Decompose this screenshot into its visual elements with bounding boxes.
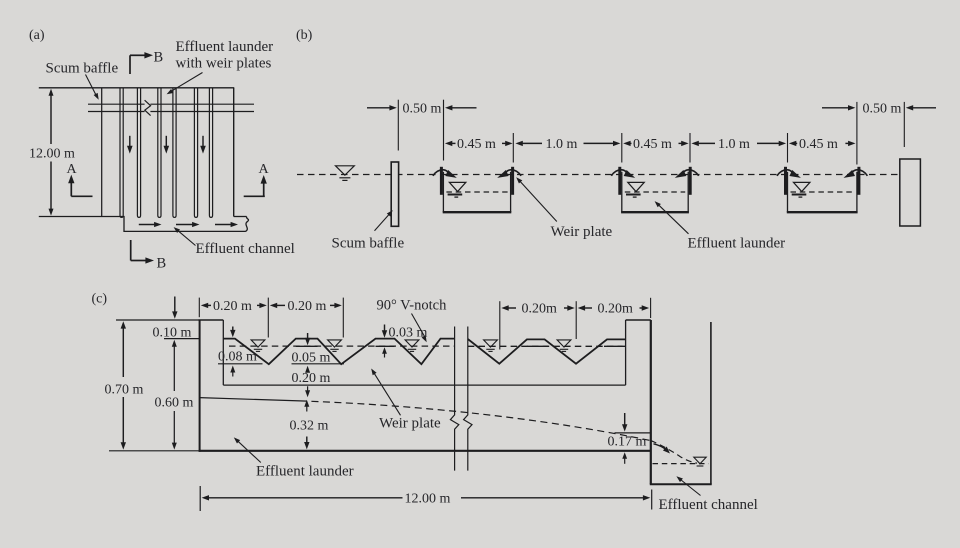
svg-text:0.45 m: 0.45 m [799,137,838,152]
svg-text:90° V-notch: 90° V-notch [377,298,448,314]
svg-text:Effluent channel: Effluent channel [659,497,758,513]
svg-text:(c): (c) [92,292,108,307]
svg-text:B: B [154,50,164,66]
svg-text:0.08 m: 0.08 m [218,350,257,365]
svg-text:12.00 m: 12.00 m [29,147,75,162]
svg-text:B: B [157,256,167,272]
svg-text:Effluent launder: Effluent launder [256,464,354,480]
svg-text:0.32 m: 0.32 m [290,419,329,434]
svg-text:0.45 m: 0.45 m [457,137,496,152]
svg-text:0.70 m: 0.70 m [105,383,144,398]
svg-text:0.20 m: 0.20 m [288,299,327,314]
svg-text:A: A [259,162,270,177]
svg-text:0.20m: 0.20m [522,302,558,317]
svg-text:Effluent channel: Effluent channel [196,241,295,257]
svg-text:0.20m: 0.20m [598,302,634,317]
svg-text:0.50 m: 0.50 m [863,102,902,117]
svg-text:Effluent launder: Effluent launder [176,39,274,55]
svg-text:Scum baffle: Scum baffle [332,236,405,252]
svg-text:0.10 m: 0.10 m [153,326,192,341]
svg-text:Effluent launder: Effluent launder [688,236,786,252]
svg-text:Weir plate: Weir plate [379,416,441,432]
svg-text:0.60 m: 0.60 m [155,396,194,411]
svg-text:1.0 m: 1.0 m [546,137,578,152]
svg-text:0.50 m: 0.50 m [403,102,442,117]
svg-text:1.0 m: 1.0 m [718,137,750,152]
svg-text:Scum baffle: Scum baffle [46,61,119,77]
svg-text:with weir plates: with weir plates [176,56,272,72]
svg-text:Weir plate: Weir plate [551,224,613,240]
svg-text:12.00 m: 12.00 m [405,491,451,506]
svg-text:0.03 m: 0.03 m [389,326,428,341]
svg-text:0.20 m: 0.20 m [213,299,252,314]
svg-text:(a): (a) [29,28,45,43]
svg-text:0.20 m: 0.20 m [292,371,331,386]
svg-text:0.17 m: 0.17 m [608,434,647,449]
svg-text:A: A [67,162,78,177]
svg-text:0.45 m: 0.45 m [633,137,672,152]
svg-text:(b): (b) [296,28,313,43]
